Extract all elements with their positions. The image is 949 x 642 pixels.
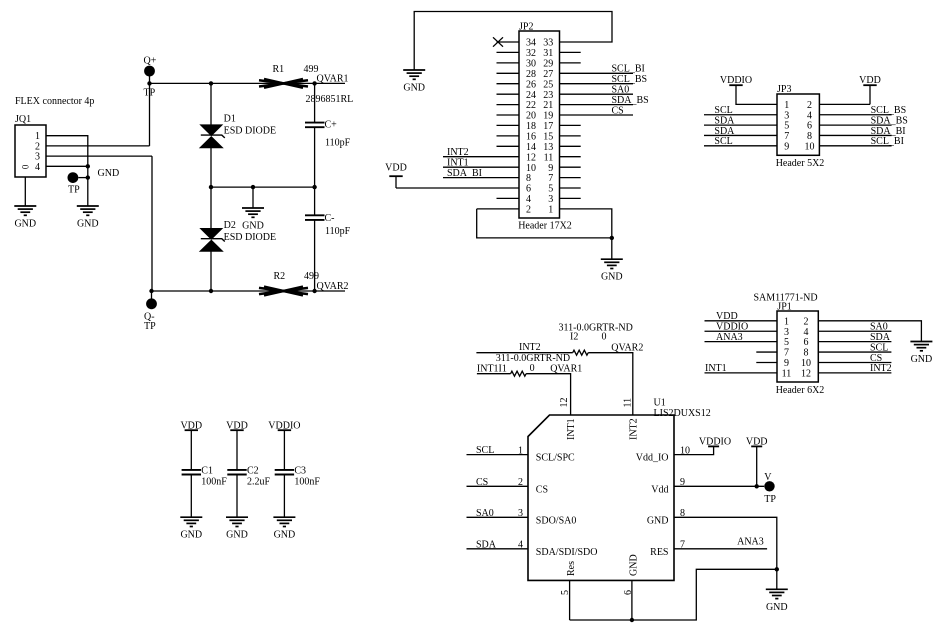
net label INT1 wire to JP2 pin 10 [443, 166, 519, 168]
svg-text:SDA: SDA [870, 332, 891, 343]
svg-text:30: 30 [526, 59, 536, 70]
wire C2 to ground [236, 475, 238, 517]
svg-text:9: 9 [548, 163, 553, 174]
test point Q+ [144, 66, 155, 77]
svg-text:SDA: SDA [714, 115, 735, 126]
svg-text:GND: GND [77, 219, 99, 230]
svg-text:22: 22 [526, 100, 536, 111]
net label SDA_BI wire from JP3 pin 8 [819, 134, 891, 136]
svg-text:SDA: SDA [476, 539, 497, 550]
svg-text:GND: GND [98, 168, 120, 179]
connector JQ1 body [15, 125, 46, 177]
wire JQ1 pin4 to ground junction [46, 165, 88, 167]
svg-text:VDDIO: VDDIO [716, 322, 748, 333]
wire JP2 pin 18 stub [497, 124, 520, 126]
wire JP2 pin 28 stub [497, 72, 520, 74]
wire JP2 pin 34 stub [497, 41, 520, 43]
junction U1 pin 6 bottom rail [630, 618, 634, 622]
svg-text:I2: I2 [570, 332, 578, 343]
svg-text:11: 11 [544, 152, 554, 163]
wire JP2 pin 33 to top ground loop [414, 12, 612, 71]
net label SA0 wire from JP1 pin 4 [818, 330, 891, 332]
IC U1 body [528, 415, 674, 580]
wire Q+ vertical to JQ1 pin2 [149, 83, 151, 145]
svg-text:21: 21 [543, 100, 553, 111]
test point TP near JQ1 [68, 172, 79, 183]
wire JP2 pin 22 stub [497, 104, 520, 106]
net label INT2 wire into resistor I2 [476, 352, 572, 354]
svg-text:SDO/SA0: SDO/SA0 [536, 515, 577, 526]
svg-text:SA0: SA0 [476, 508, 494, 519]
svg-text:12: 12 [801, 369, 811, 380]
svg-text:GND: GND [601, 272, 623, 283]
svg-text:25: 25 [543, 79, 553, 90]
capacitor C- plates [305, 215, 325, 220]
svg-text:4: 4 [807, 110, 812, 121]
svg-text:31: 31 [543, 48, 553, 59]
no-connect X at JP2 pin 34 [493, 37, 503, 46]
wire D2 cathode to bottom rail [210, 250, 212, 291]
svg-text:10: 10 [801, 358, 811, 369]
net label CS wire from JP1 pin 10 [818, 361, 891, 363]
svg-text:1: 1 [784, 316, 789, 327]
wire JP2 pin 2 to bottom ground [477, 209, 612, 238]
wire D1 cathode to mid rail [210, 147, 212, 188]
junction mid rail center [251, 185, 255, 189]
ground top-left of JP2 [403, 70, 425, 79]
svg-text:SA0: SA0 [870, 322, 888, 333]
junction U1 ground node [775, 567, 779, 571]
ground below TP [77, 206, 99, 215]
resistor R1 [259, 79, 308, 88]
svg-text:SCL: SCL [714, 105, 732, 116]
svg-text:C1: C1 [201, 465, 213, 476]
svg-text:4: 4 [526, 194, 531, 205]
wire Q+ stem [149, 76, 151, 83]
net label ANA3 wire to JP1 pin 5 [705, 341, 778, 343]
svg-text:SCL_BI: SCL_BI [612, 64, 645, 75]
resistor I1 [511, 371, 526, 376]
test point V [764, 481, 774, 491]
svg-text:SDA: SDA [714, 126, 735, 137]
junction mid rail right [312, 185, 316, 189]
wire JP2 pin 1 to bottom ground [560, 209, 612, 238]
svg-text:4: 4 [518, 540, 523, 551]
svg-text:0: 0 [20, 165, 30, 170]
diode D2 [200, 228, 222, 239]
svg-text:3: 3 [548, 194, 553, 205]
svg-text:GND: GND [911, 354, 933, 365]
junction QVAR2 [312, 289, 316, 293]
svg-text:5: 5 [548, 184, 553, 195]
svg-text:D1: D1 [224, 114, 236, 125]
svg-text:TP: TP [764, 494, 776, 505]
svg-text:33: 33 [543, 38, 553, 49]
wire U1 pin 5 Res stub [569, 580, 571, 620]
net label SCL_BI wire from JP2 pin 27 [560, 72, 634, 74]
svg-text:8: 8 [804, 348, 809, 359]
svg-text:SCL_BS: SCL_BS [612, 74, 648, 85]
net label SCL wire to JP3 pin 9 [704, 145, 777, 147]
svg-text:15: 15 [543, 132, 553, 143]
svg-text:QVAR1: QVAR1 [550, 363, 582, 374]
svg-text:6: 6 [804, 337, 809, 348]
svg-text:11: 11 [622, 398, 633, 408]
svg-text:5: 5 [560, 590, 571, 595]
wire U1 pin 6 GND stub [631, 580, 633, 620]
wire VDD to C2 [236, 430, 238, 469]
wire U1 pin 8 to ground [674, 517, 777, 569]
wire JQ1 pin1 to ground vertical [46, 136, 88, 206]
svg-text:C+: C+ [325, 119, 338, 130]
svg-text:SCL_BS: SCL_BS [871, 105, 907, 116]
net label SCL_BI wire from JP3 pin 10 [819, 145, 891, 147]
svg-text:CS: CS [476, 477, 488, 488]
junction bottom rail at D2 [209, 289, 213, 293]
svg-text:INT2: INT2 [447, 147, 469, 158]
svg-text:GND: GND [647, 515, 669, 526]
wire JP2 pin 13 stub [560, 145, 581, 147]
svg-text:0: 0 [602, 332, 607, 343]
wire JQ1 pin2 to Q+ net [46, 145, 150, 147]
wire Q- vertical from JQ1 pin3 [151, 156, 153, 291]
net label SA0 wire to U1 pin 3 [467, 516, 529, 518]
svg-text:ESD DIODE: ESD DIODE [224, 232, 277, 243]
svg-text:7: 7 [548, 173, 553, 184]
wire C- top [314, 187, 316, 215]
net label INT2 wire to JP2 pin 12 [443, 156, 519, 158]
svg-text:C3: C3 [294, 465, 306, 476]
net label SDA_BI wire to JP2 pin 8 [443, 177, 519, 179]
svg-text:0: 0 [530, 363, 535, 374]
net label INT1 wire to JP1 pin 11 [705, 372, 778, 374]
svg-text:19: 19 [543, 111, 553, 122]
net label CS wire to U1 pin 2 [467, 485, 529, 487]
svg-text:SCL: SCL [476, 445, 494, 456]
svg-text:1: 1 [784, 100, 789, 111]
svg-text:1: 1 [518, 445, 523, 456]
svg-text:GND: GND [226, 530, 248, 541]
svg-text:4: 4 [35, 162, 40, 173]
svg-text:9: 9 [784, 141, 789, 152]
svg-text:4: 4 [804, 327, 809, 338]
svg-text:8: 8 [807, 131, 812, 142]
svg-text:SCL: SCL [714, 136, 732, 147]
wire JP2 pin 9 stub [560, 166, 581, 168]
capacitor C+ plates [305, 123, 325, 128]
wire JP2 pin 11 stub [560, 156, 581, 158]
svg-text:11: 11 [782, 369, 792, 380]
wire resistor I1 to QVAR1 / U1 pin 12 [526, 374, 571, 415]
svg-text:INT2: INT2 [870, 363, 892, 374]
svg-text:GND: GND [274, 530, 296, 541]
net label CS wire from JP2 pin 19 [560, 114, 634, 116]
net label SDA_BS wire from JP3 pin 6 [819, 124, 891, 126]
svg-text:2: 2 [804, 316, 809, 327]
svg-text:R1: R1 [273, 64, 285, 75]
svg-text:RES: RES [650, 547, 668, 558]
svg-text:2896851RL: 2896851RL [306, 94, 354, 105]
svg-text:TP: TP [144, 321, 156, 332]
ground below C3 [273, 517, 295, 526]
svg-text:2: 2 [526, 205, 531, 216]
net label VDDIO wire to JP1 pin 3 [705, 330, 778, 332]
svg-text:GND: GND [180, 530, 202, 541]
svg-text:TP: TP [68, 184, 80, 195]
net label ANA3 wire from U1 pin 7 RES [674, 548, 767, 550]
wire JP2 pin 4 stub [497, 197, 520, 199]
svg-text:GND: GND [403, 83, 425, 94]
header JP3 body [777, 94, 819, 155]
svg-text:2: 2 [518, 477, 523, 488]
svg-text:CS: CS [612, 105, 624, 116]
ground below C1 [180, 517, 202, 526]
svg-text:27: 27 [543, 69, 553, 80]
svg-text:Header 17X2: Header 17X2 [518, 220, 572, 231]
wire C+ to mid rail [314, 128, 316, 188]
svg-text:JQ1: JQ1 [15, 114, 31, 125]
svg-text:GND: GND [628, 554, 639, 576]
wire JP2 pin 31 stub [560, 51, 581, 53]
junction JP2 bottom ground [610, 236, 614, 240]
svg-text:SA0: SA0 [612, 85, 630, 96]
svg-text:17: 17 [543, 121, 553, 132]
wire JP2 pin 29 stub [560, 62, 581, 64]
wire JP2 pin 7 stub [560, 177, 581, 179]
svg-text:3: 3 [784, 327, 789, 338]
svg-text:SDA_BS: SDA_BS [612, 95, 649, 106]
net label SCL_BS wire from JP3 pin 4 [819, 114, 891, 116]
wire D2 anode [210, 187, 212, 229]
net label SDA wire to JP3 pin 7 [704, 134, 777, 136]
header JP2 body [519, 31, 560, 218]
junction top rail at D1 [209, 81, 213, 85]
svg-text:110pF: 110pF [325, 137, 351, 148]
svg-text:20: 20 [526, 111, 536, 122]
svg-text:9: 9 [784, 358, 789, 369]
svg-text:FLEX connector 4p: FLEX connector 4p [15, 96, 94, 107]
svg-text:INT1I1: INT1I1 [477, 363, 507, 374]
svg-text:SDA/SDI/SDO: SDA/SDI/SDO [536, 547, 598, 558]
svg-text:23: 23 [543, 90, 553, 101]
svg-text:ANA3: ANA3 [716, 332, 743, 343]
net label SA0 wire from JP2 pin 23 [560, 93, 634, 95]
wire JP2 pin 32 stub [497, 51, 520, 53]
wire VDD to C1 [190, 430, 192, 469]
header JP1 body [777, 311, 818, 382]
svg-text:INT2: INT2 [628, 418, 639, 440]
wire VDDIO to C3 [283, 430, 285, 469]
resistor R2 [259, 287, 308, 296]
wire top rail Q+ to QVAR1 [150, 82, 346, 84]
svg-text:ANA3: ANA3 [737, 537, 764, 548]
svg-text:QVAR2: QVAR2 [611, 342, 643, 353]
svg-text:INT1: INT1 [566, 418, 577, 440]
net label VDD wire to JP1 pin 1 [705, 320, 778, 322]
svg-text:U1: U1 [654, 397, 666, 408]
svg-text:6: 6 [526, 184, 531, 195]
svg-text:GND: GND [242, 221, 264, 232]
svg-text:28: 28 [526, 69, 536, 80]
svg-text:R2: R2 [274, 271, 286, 282]
svg-text:100nF: 100nF [201, 477, 227, 488]
svg-text:QVAR1: QVAR1 [317, 74, 349, 85]
wire JP1 pin 7 stub [756, 351, 777, 353]
svg-text:INT1: INT1 [447, 158, 469, 169]
svg-text:6: 6 [807, 121, 812, 132]
svg-text:13: 13 [543, 142, 553, 153]
svg-text:SDA_BI: SDA_BI [871, 126, 906, 137]
wire U1 pin 9 to test point V [674, 485, 764, 487]
wire JP2 pin 3 stub [560, 197, 581, 199]
wire JP2 pin 20 stub [497, 114, 520, 116]
test point Q- [146, 298, 157, 309]
diode D1 [200, 125, 222, 136]
svg-text:C-: C- [325, 213, 335, 224]
svg-text:C2: C2 [247, 465, 259, 476]
svg-text:100nF: 100nF [294, 477, 320, 488]
wire JP2 pin 6 from VDD [396, 187, 519, 189]
wire JP1 pin 9 stub [756, 361, 777, 363]
svg-text:CS: CS [536, 484, 548, 495]
ground below C2 [226, 517, 248, 526]
svg-text:Q+: Q+ [144, 56, 157, 67]
svg-text:3: 3 [784, 110, 789, 121]
svg-text:Header 6X2: Header 6X2 [776, 385, 825, 396]
wire JP1 pin 2 to ground [818, 321, 921, 342]
svg-text:Header 5X2: Header 5X2 [776, 158, 825, 169]
svg-text:5: 5 [784, 337, 789, 348]
junction mid rail left [209, 185, 213, 189]
svg-text:14: 14 [526, 142, 536, 153]
svg-text:1: 1 [548, 205, 553, 216]
svg-text:2.2uF: 2.2uF [247, 477, 271, 488]
svg-text:SCL_BI: SCL_BI [871, 136, 904, 147]
net label SCL_BS wire from JP2 pin 25 [560, 83, 634, 85]
wire JP2 pin 17 stub [560, 124, 581, 126]
svg-text:GND: GND [766, 602, 788, 613]
wire JP2 pin 24 stub [497, 93, 520, 95]
svg-text:12: 12 [559, 398, 570, 408]
svg-text:12: 12 [526, 152, 536, 163]
svg-text:6: 6 [623, 590, 634, 595]
svg-text:LIS2DUXS12: LIS2DUXS12 [654, 408, 711, 419]
junction pin4/ground [86, 164, 90, 168]
svg-text:SDA_BI: SDA_BI [447, 168, 482, 179]
svg-text:D2: D2 [224, 220, 236, 231]
wire C1 to ground [190, 475, 192, 517]
svg-text:10: 10 [805, 141, 815, 152]
svg-text:Vdd_IO: Vdd_IO [636, 453, 669, 464]
svg-text:SCL: SCL [870, 342, 888, 353]
svg-text:Vdd: Vdd [651, 484, 668, 495]
svg-text:VDD: VDD [385, 163, 407, 174]
svg-text:SCL/SPC: SCL/SPC [536, 453, 575, 464]
wire TP to ground vertical [78, 177, 88, 179]
net label SDA_BS wire from JP2 pin 21 [560, 104, 634, 106]
wire JP2 pin 30 stub [497, 62, 520, 64]
wire resistor I2 to QVAR2 / U1 pin 11 [588, 353, 633, 415]
wire C- to bottom rail [314, 220, 316, 291]
svg-text:26: 26 [526, 79, 536, 90]
junction QVAR1 [312, 81, 316, 85]
svg-text:29: 29 [543, 59, 553, 70]
wire INT1 into resistor I1 [477, 373, 511, 375]
svg-text:7: 7 [784, 348, 789, 359]
svg-text:7: 7 [784, 131, 789, 142]
svg-text:Res: Res [566, 561, 577, 576]
svg-text:INT1: INT1 [705, 363, 727, 374]
wire C3 to ground [283, 475, 285, 517]
wire U1 bottom rail to ground node [570, 569, 777, 620]
ground right of JP1 [910, 342, 932, 351]
wire QVAR1 to C+ [314, 83, 316, 122]
net label SCL wire to U1 pin 1 [467, 454, 529, 456]
net label INT2 wire from JP1 pin 12 [818, 372, 891, 374]
ground below JP2 [611, 238, 613, 259]
svg-text:SDA_BS: SDA_BS [871, 115, 908, 126]
wire JQ1 pin3 to Q- net [46, 155, 152, 157]
wire JP2 pin 26 stub [497, 83, 520, 85]
wire JP2 pin 5 stub [560, 187, 581, 189]
mid rail wire [211, 186, 315, 188]
svg-text:INT2: INT2 [519, 342, 541, 353]
svg-text:CS: CS [870, 353, 882, 364]
junction Q- [149, 289, 153, 293]
net label SDA wire to U1 pin 4 [467, 548, 529, 550]
net label SCL wire to JP3 pin 3 [704, 114, 777, 116]
ground below JQ1 [24, 177, 26, 206]
svg-text:3: 3 [518, 508, 523, 519]
ground mid rail [252, 187, 254, 208]
svg-text:18: 18 [526, 121, 536, 132]
svg-text:ESD DIODE: ESD DIODE [224, 126, 277, 137]
svg-text:2: 2 [807, 100, 812, 111]
svg-text:16: 16 [526, 132, 536, 143]
wire JP2 pin 14 stub [497, 145, 520, 147]
capacitor C3 [275, 470, 294, 475]
svg-text:24: 24 [526, 90, 536, 101]
wire JP2 pin 2 stub [477, 208, 519, 210]
wire U1 pin 10 to VDDIO power [674, 446, 714, 454]
junction TP/ground [86, 175, 90, 179]
svg-text:5: 5 [784, 121, 789, 132]
svg-text:8: 8 [526, 173, 531, 184]
capacitor C2 [227, 470, 246, 475]
wire JP2 pin 16 stub [497, 135, 520, 137]
svg-text:VDD: VDD [716, 311, 738, 322]
svg-text:QVAR2: QVAR2 [317, 281, 349, 292]
resistor I2 [573, 350, 588, 355]
wire JP2 pin 15 stub [560, 135, 581, 137]
net label SDA wire to JP3 pin 5 [704, 124, 777, 126]
wire bottom rail Q- to QVAR2 [152, 290, 346, 292]
svg-text:34: 34 [526, 38, 536, 49]
junction Q+ [147, 81, 151, 85]
wire D1 anode [210, 83, 212, 125]
junction VDD / pin 9 [755, 484, 759, 488]
svg-text:10: 10 [526, 163, 536, 174]
svg-text:V: V [764, 472, 772, 483]
svg-text:GND: GND [14, 219, 36, 230]
net label SDA wire from JP1 pin 6 [818, 341, 891, 343]
svg-text:32: 32 [526, 48, 536, 59]
capacitor C1 [182, 470, 201, 475]
svg-text:110pF: 110pF [325, 226, 351, 237]
ground below U1 right [776, 569, 778, 589]
net label SCL wire from JP1 pin 8 [818, 351, 891, 353]
